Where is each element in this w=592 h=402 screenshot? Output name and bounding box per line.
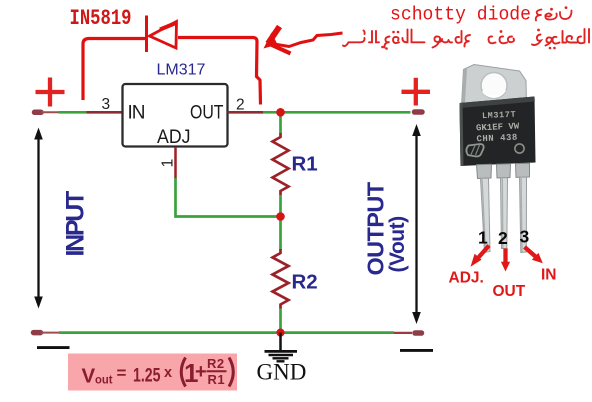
formula fraction R2/R1 [207, 356, 225, 387]
wire top rail left cap [35, 110, 42, 116]
wire top rail into IN pin [87, 111, 123, 114]
wire ADJ to J2 green [176, 178, 278, 217]
svg-text:=: = [117, 364, 127, 383]
output span arrow [412, 124, 421, 324]
plus symbol output [402, 78, 431, 106]
annotation arrow tail [271, 33, 343, 47]
minus symbol output [400, 349, 433, 352]
svg-text:1.25: 1.25 [133, 366, 161, 387]
wire top rail left stub [41, 111, 59, 113]
transistor leg 2 pin [501, 178, 508, 249]
transistor package tab shading [462, 69, 468, 106]
svg-text:1: 1 [160, 159, 177, 168]
arrow to ADJ [471, 246, 490, 267]
transistor package body [460, 97, 536, 167]
op-amp box LM317 U1 [123, 84, 228, 147]
svg-text:IN: IN [128, 103, 146, 124]
transistor leg 1 pin shade [482, 179, 486, 252]
svg-text:ADJ: ADJ [157, 127, 191, 148]
plus symbol input [36, 78, 65, 107]
transistor leg 1 pin [481, 178, 491, 252]
transistor leg 2 shoulder [497, 164, 511, 178]
svg-text:OUT: OUT [493, 283, 526, 300]
ground stem [279, 333, 282, 351]
svg-text:IN: IN [541, 267, 557, 284]
formula Vout [82, 364, 173, 388]
ground bar 4 [277, 360, 285, 362]
svg-text:+: + [195, 361, 207, 383]
svg-text:out: out [95, 372, 113, 386]
transistor package hole glare [483, 90, 505, 97]
ground bar 3 [273, 357, 289, 359]
svg-text:V: V [82, 365, 96, 388]
transistor leg 3 pin [520, 177, 527, 253]
wire R1 to J2 [279, 195, 282, 217]
resistor R2 [273, 249, 289, 309]
svg-text:GK1EF VW: GK1EF VW [476, 122, 520, 134]
transistor package ST logo [466, 144, 483, 157]
wire J2 down to R2 [279, 217, 282, 250]
arabic word line1 [536, 6, 572, 20]
svg-text:R2: R2 [292, 271, 318, 294]
wire R2 to J3 [279, 309, 282, 333]
svg-text:3: 3 [520, 226, 530, 246]
svg-text:R1: R1 [292, 153, 318, 176]
transistor package tab [462, 65, 527, 107]
transistor package tab hole [481, 73, 507, 99]
svg-text:OUTPUT: OUTPUT [363, 181, 389, 275]
transistor package body top bevel [460, 97, 535, 109]
annotation arrow head [264, 27, 291, 54]
svg-text:INPUT: INPUT [62, 191, 90, 257]
diode D1 overdraw stroke [160, 23, 177, 30]
ground bar 1 [265, 350, 298, 353]
wire bottom rail left stub [41, 332, 60, 334]
wire bottom rail left cap [34, 330, 41, 336]
formula 1+ [184, 358, 207, 388]
wire ADJ pin red segment [174, 147, 177, 179]
svg-text:R1: R1 [208, 372, 226, 387]
svg-text:(Vout): (Vout) [386, 216, 409, 272]
svg-text:OUT: OUT [190, 103, 224, 124]
arrow to IN [525, 247, 543, 263]
formula close paren [229, 358, 233, 387]
transistor leg 3 pin shade [521, 178, 522, 252]
input span arrow [34, 128, 43, 309]
node junction J1 [276, 108, 285, 117]
diode D1 right wire [178, 38, 261, 105]
svg-text:schotty diode: schotty diode [390, 4, 531, 26]
wire top rail green right [263, 111, 411, 114]
svg-text:LM317: LM317 [157, 62, 206, 79]
transistor package circle mark [515, 144, 524, 153]
wire top rail right cap [415, 109, 423, 115]
diode D1 left wire [83, 39, 145, 101]
transistor package print LM317T [475, 110, 520, 145]
wire J1 down to R1 [279, 112, 282, 133]
wire bottom rail right cap [415, 330, 422, 336]
diode D1 triangle [150, 22, 177, 49]
svg-text:CHN 438: CHN 438 [476, 133, 518, 145]
svg-text:ADJ.: ADJ. [449, 270, 484, 287]
transistor package ST logo stripes [471, 145, 480, 155]
wire OUT pin to junction [228, 111, 264, 114]
svg-text:1: 1 [478, 228, 488, 248]
arabic line2 [343, 29, 589, 50]
formula box background [68, 354, 237, 391]
svg-text:x: x [164, 365, 172, 381]
wire bottom rail right stub [394, 332, 412, 334]
node junction J2 [276, 212, 285, 221]
diode D1 cathode bar [145, 16, 148, 53]
formula open paren [181, 358, 185, 387]
transistor leg 3 shoulder [516, 163, 530, 177]
minus symbol input [37, 346, 70, 349]
transistor leg 2 pin shade [501, 179, 504, 249]
wire bottom rail green [59, 331, 394, 334]
svg-text:R2: R2 [207, 356, 225, 371]
resistor R1 [273, 133, 289, 195]
transistor leg 1 shoulder [477, 164, 492, 178]
node junction J3 [276, 329, 284, 337]
svg-text:IN5819: IN5819 [70, 6, 132, 31]
svg-text:LM317T: LM317T [482, 110, 517, 121]
transistor package body left edge [460, 103, 464, 166]
svg-text:3: 3 [102, 96, 111, 113]
svg-text:2: 2 [498, 228, 508, 248]
wire top rail green left [59, 111, 87, 114]
svg-text:GND: GND [257, 360, 307, 385]
ground bar 2 [269, 354, 294, 356]
arrow to OUT [501, 249, 510, 272]
